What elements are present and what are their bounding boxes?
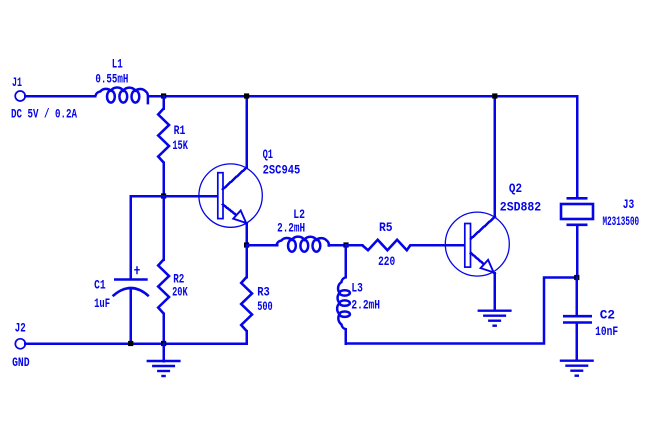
svg-text:DC 5V / 0.2A: DC 5V / 0.2A — [11, 107, 77, 122]
svg-text:Q2: Q2 — [509, 181, 522, 196]
svg-text:R5: R5 — [379, 220, 393, 235]
wire: bottom left rail — [25, 342, 246, 345]
svg-text:500: 500 — [257, 299, 273, 314]
node: C1 bottom junction — [128, 341, 133, 346]
svg-text:C2: C2 — [600, 307, 615, 322]
resistor R3 — [245, 245, 248, 277]
node: base rail junction — [161, 193, 166, 198]
wire: base rail — [131, 195, 218, 198]
capacitor C2 — [576, 278, 579, 316]
svg-text:15K: 15K — [172, 138, 188, 153]
svg-text:L3: L3 — [351, 280, 363, 295]
capacitor C1 — [129, 196, 132, 278]
node: R2 bottom junction — [161, 341, 166, 346]
node: rail/R1 junction — [161, 93, 166, 98]
svg-text:220: 220 — [378, 254, 395, 269]
svg-text:J2: J2 — [15, 321, 26, 336]
inductor L3 — [345, 245, 348, 277]
wire: L2 to node — [329, 244, 346, 247]
svg-text:J3: J3 — [623, 197, 635, 212]
ground under C2 — [560, 360, 594, 362]
svg-text:2SD882: 2SD882 — [500, 200, 541, 215]
node: rail/Q1 collector — [244, 93, 249, 98]
svg-text:0.55mH: 0.55mH — [95, 72, 128, 87]
connector J1 — [15, 91, 25, 101]
svg-text:GND: GND — [12, 355, 30, 370]
transistor Q2 — [445, 212, 509, 276]
node: rail/Q2 collector — [492, 93, 497, 98]
svg-text:1uF: 1uF — [94, 296, 110, 311]
connector J2 — [15, 339, 25, 349]
ground under Q2 — [478, 310, 512, 312]
svg-text:J1: J1 — [12, 75, 22, 90]
svg-text:2.2mH: 2.2mH — [351, 297, 380, 312]
inductor L1 — [96, 87, 148, 104]
wire: bottom right run — [346, 278, 577, 344]
node: J3/C2 junction — [574, 275, 579, 280]
resistor R5 — [362, 240, 411, 250]
crystal J3 — [567, 197, 588, 200]
wire: node to R5 — [346, 244, 362, 247]
svg-text:2SC945: 2SC945 — [263, 163, 301, 178]
svg-text:L1: L1 — [112, 57, 123, 72]
resistor R1 — [162, 96, 165, 109]
svg-text:10nF: 10nF — [595, 324, 618, 339]
ground under R2 — [162, 344, 165, 362]
wire: R5 to Q2 base — [411, 244, 465, 247]
svg-text:C1: C1 — [94, 278, 106, 293]
transistor Q1 — [199, 164, 262, 227]
wire: emitter node to L2 — [247, 244, 277, 247]
svg-text:Q1: Q1 — [263, 147, 273, 162]
svg-text:M2313500: M2313500 — [603, 214, 640, 229]
node: L2/L3/R5 junction — [343, 242, 348, 247]
svg-text:R1: R1 — [174, 123, 186, 138]
svg-text:R3: R3 — [257, 284, 270, 299]
node: Q1 emitter junction — [244, 242, 249, 247]
resistor R2 — [162, 196, 165, 260]
svg-text:2.2mH: 2.2mH — [277, 221, 305, 236]
wire: rail drop to J3 — [576, 96, 579, 198]
wire: top supply rail — [25, 95, 95, 98]
svg-text:20K: 20K — [172, 285, 188, 300]
inductor L2 — [277, 237, 329, 247]
